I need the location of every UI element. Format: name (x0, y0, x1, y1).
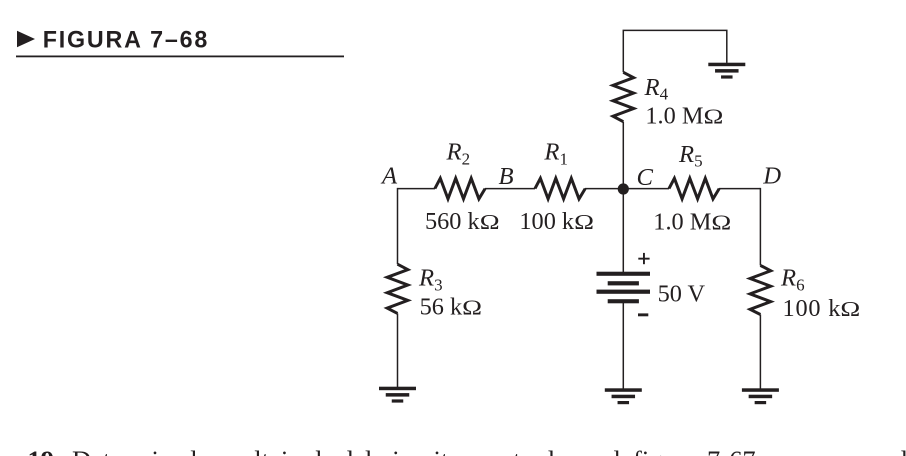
resistor R2 zigzag (435, 178, 485, 199)
svg-text:1.0 M: 1.0 M (645, 103, 703, 130)
svg-text:D: D (762, 162, 781, 189)
svg-text:Ω: Ω (480, 210, 500, 234)
svg-text:los: los (190, 445, 221, 456)
svg-text:en: en (583, 445, 608, 456)
svg-text:de: de (894, 445, 906, 456)
svg-text:Ω: Ω (704, 105, 724, 129)
svg-text:560 k: 560 k (425, 208, 481, 235)
wire node C up to R4 (622, 122, 624, 190)
svg-text:B: B (499, 163, 514, 190)
ground symbol below R6 (742, 388, 779, 404)
svg-text:circuito: circuito (381, 445, 462, 456)
svg-text:Ω: Ω (462, 296, 482, 320)
svg-text:R5: R5 (678, 141, 703, 171)
wire node A down to R3 (397, 188, 399, 264)
svg-text:voltajes: voltajes (228, 445, 310, 456)
svg-text:7-67: 7-67 (707, 445, 756, 456)
battery minus sign (638, 313, 648, 316)
resistor R1 zigzag (535, 178, 585, 199)
svg-text:mostrado: mostrado (469, 445, 568, 456)
resistor R3 zigzag (387, 264, 408, 313)
wire node C to R5 (623, 188, 669, 190)
svg-text:Ω: Ω (711, 211, 731, 235)
svg-text:Ω: Ω (840, 297, 860, 321)
svg-text:R6: R6 (780, 265, 805, 295)
svg-text:19.: 19. (28, 445, 61, 456)
svg-text:figura: figura (633, 445, 697, 456)
resistor R4 zigzag (613, 72, 634, 121)
svg-text:R2: R2 (446, 139, 471, 169)
battery plus sign (638, 253, 649, 264)
battery VS 50 V plates (597, 272, 651, 304)
svg-text:R1: R1 (543, 139, 568, 169)
wire node D down to R6 (759, 188, 761, 266)
svg-text:de: de (309, 445, 334, 456)
svg-text:50 V: 50 V (658, 281, 706, 308)
resistor R6 zigzag (750, 265, 771, 314)
wire R3 to ground (397, 313, 399, 387)
svg-text:A: A (380, 162, 398, 189)
figure caption underline (16, 56, 344, 58)
wire R6 to ground (759, 315, 761, 389)
svg-text:56 k: 56 k (420, 293, 463, 320)
svg-text:R3: R3 (418, 265, 443, 295)
figure caption marker triangle (17, 31, 35, 47)
svg-text:Determine: Determine (72, 445, 184, 456)
wire R1 to node C (585, 188, 623, 190)
ground symbol below battery (605, 388, 642, 404)
wire R4 top up and over to ground (623, 30, 727, 72)
svg-text:R4: R4 (644, 74, 669, 104)
wire R5 to node D corner (719, 188, 760, 190)
svg-text:100 k: 100 k (783, 295, 842, 322)
resistor R5 zigzag (669, 178, 719, 199)
problem text fragment at bottom edge (28, 445, 906, 456)
wire node C down to battery (622, 188, 624, 272)
svg-text:C: C (637, 164, 654, 191)
svg-text:1.0 M: 1.0 M (653, 209, 711, 236)
wire battery to ground (622, 303, 624, 389)
svg-text:FIGURA 7–68: FIGURA 7–68 (43, 26, 209, 54)
ground symbol below R3 (379, 387, 416, 403)
node C junction dot (618, 183, 629, 194)
svg-text:del: del (340, 445, 372, 456)
svg-text:100 k: 100 k (519, 208, 575, 235)
ground symbol top right (708, 63, 745, 79)
wire node A to R2 (398, 188, 436, 190)
svg-text:Ω: Ω (574, 210, 594, 234)
svg-text:la: la (614, 445, 633, 456)
wire R2 to R1 through node B (485, 188, 535, 190)
